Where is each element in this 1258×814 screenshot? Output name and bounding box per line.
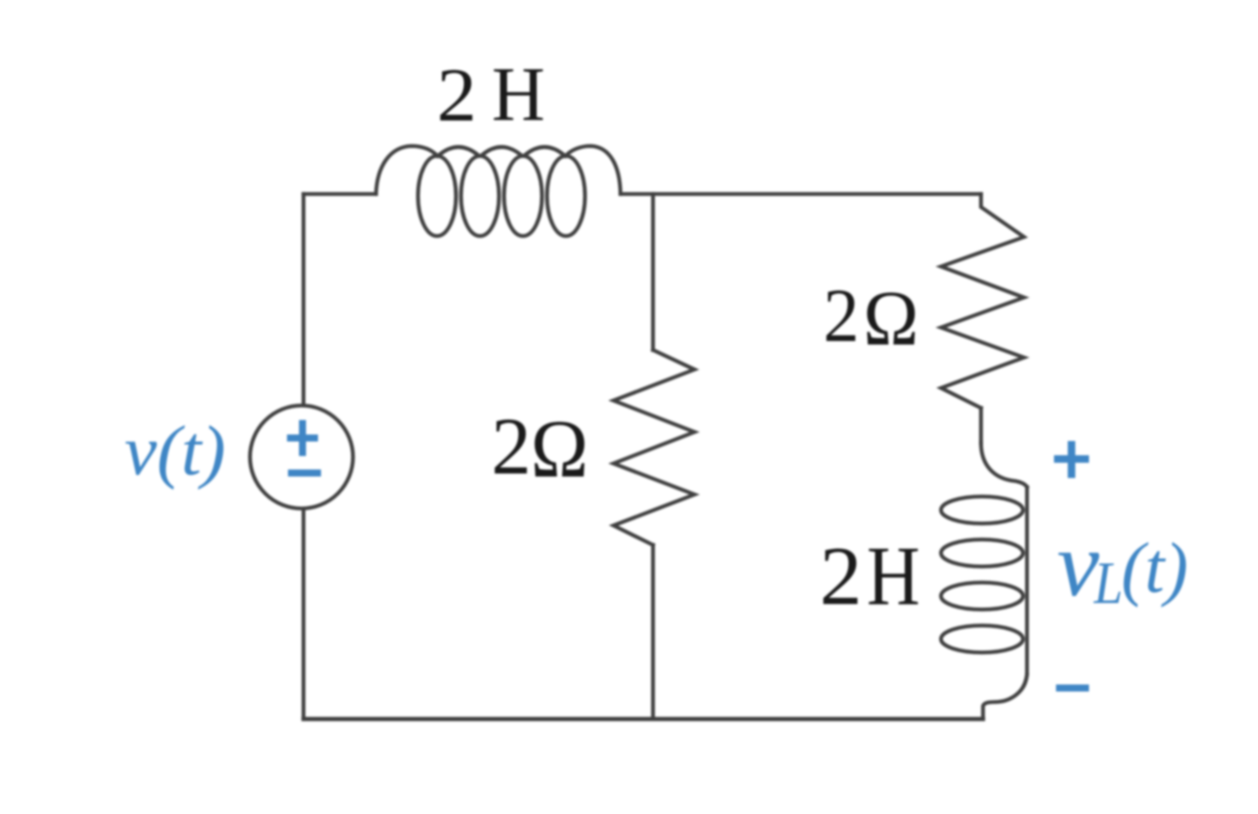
voltage source V1 plus-minus marks: [287, 420, 321, 473]
wire: top horizontal (L1 to top-right corner, with node at middle branch): [621, 192, 982, 196]
resistor R2 2 ohm (right): [941, 194, 1024, 408]
polarity minus (bottom of L2): [1056, 685, 1089, 692]
svg-text:H: H: [867, 530, 920, 624]
svg-text:2: 2: [823, 274, 859, 358]
svg-text:Ω: Ω: [531, 403, 589, 495]
svg-text:Ω: Ω: [863, 275, 918, 362]
wire: middle branch vertical upper: [651, 194, 655, 350]
wire: bottom horizontal: [304, 717, 984, 721]
wire: right branch between R2 and L2: [979, 408, 983, 443]
svg-text:2: 2: [820, 531, 863, 623]
svg-text:L: L: [1093, 550, 1123, 616]
svg-text:v: v: [1057, 514, 1100, 615]
wire: left vertical bottom (source to bottom wire): [302, 509, 306, 719]
svg-text:v(t): v(t): [125, 412, 226, 491]
wire: top-left horizontal (corner to inductor L1): [304, 192, 377, 196]
polarity plus (top of L2): [1054, 441, 1089, 478]
svg-text:H: H: [492, 53, 545, 138]
wire: middle branch vertical lower: [651, 545, 655, 719]
svg-text:2: 2: [437, 53, 477, 137]
wire: left vertical top (source to top-left corner): [302, 194, 306, 405]
svg-text:2: 2: [491, 402, 531, 492]
svg-text:(t): (t): [1121, 529, 1188, 609]
inductor L1 2 H (top horizontal coil): [376, 146, 621, 236]
voltage source V1 circle: [250, 406, 353, 509]
inductor L2 2 H (right vertical coil): [941, 443, 1027, 719]
resistor R1 2 ohm (middle): [614, 350, 695, 545]
